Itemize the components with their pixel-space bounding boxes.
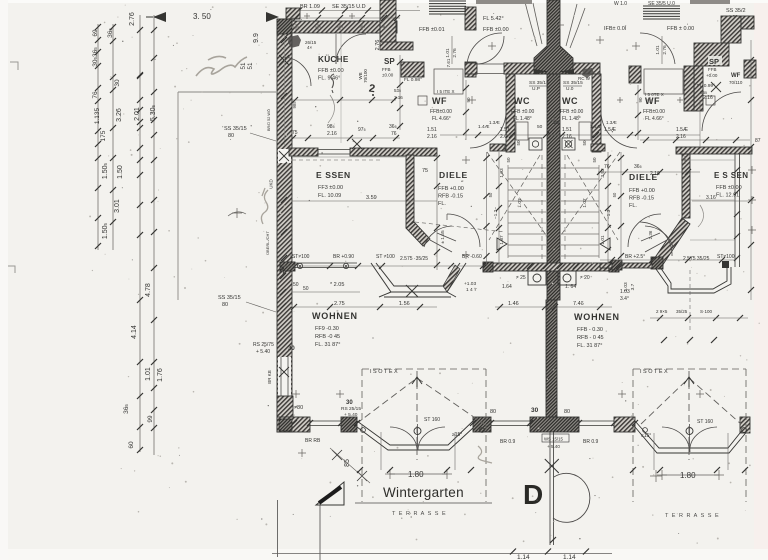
svg-text:76: 76 — [92, 91, 99, 99]
central section line lower — [550, 432, 554, 545]
svg-text:75: 75 — [422, 168, 428, 174]
svg-text:ST≠100: ST≠100 — [717, 254, 735, 260]
stair arrow right — [600, 238, 610, 250]
svg-text:FFB ± 0.00: FFB ± 0.00 — [667, 26, 694, 32]
svg-text:FFB +0.00: FFB +0.00 — [629, 188, 655, 194]
svg-text:BR 0.9: BR 0.9 — [500, 439, 516, 445]
svg-text:FL 5.42°: FL 5.42° — [483, 16, 504, 22]
svg-text:FL. 31 87°: FL. 31 87° — [577, 343, 602, 349]
svg-text:50: 50 — [612, 192, 617, 197]
svg-text:87: 87 — [755, 138, 761, 144]
axis arrow right at wall — [266, 12, 279, 22]
right house small square — [706, 96, 715, 105]
tick cluster bottom piers — [357, 467, 363, 473]
svg-text:7.61: 7.61 — [446, 58, 451, 67]
svg-text:1.3Æ: 1.3Æ — [606, 120, 617, 125]
svg-text:80: 80 — [222, 302, 228, 308]
tick cluster at boundary left wall — [280, 273, 286, 279]
node circles at boundary posts left — [297, 263, 348, 268]
more chain ticks left margin — [137, 73, 143, 79]
top corridor band door gap lines — [477, 63, 504, 65]
svg-text:2.76: 2.76 — [129, 12, 136, 26]
svg-text:E S SEN: E S SEN — [714, 171, 748, 180]
svg-text:1.01: 1.01 — [145, 367, 152, 381]
bottom wall corner leg — [277, 417, 310, 432]
dim line y265 ticks — [292, 263, 298, 269]
svg-text:ÜBERL./CHT: ÜBERL./CHT — [265, 231, 270, 255]
right DIELE wall vertical — [682, 154, 690, 218]
right essen curve mark — [698, 205, 704, 227]
wintergarten dashed roof diamond left — [356, 371, 484, 460]
svg-text:51: 51 — [247, 62, 254, 69]
stair dashed diagonal right — [561, 152, 620, 235]
svg-text:50: 50 — [488, 192, 493, 197]
handwriting in kitchen — [331, 74, 334, 93]
kitchen curve mark — [328, 95, 335, 123]
svg-text:I 5 ITE X: I 5 ITE X — [437, 89, 455, 94]
central party wall upper — [534, 0, 573, 74]
svg-text:1.135: 1.135 — [94, 107, 101, 124]
boundary pier at left wall — [280, 262, 295, 271]
right house pier near WF — [629, 66, 641, 83]
svg-text:ST 160: ST 160 — [424, 417, 440, 423]
svg-text:1.80: 1.80 — [408, 470, 424, 479]
right house outer window band vertical — [735, 154, 740, 267]
kitchen window sill lines — [284, 20, 286, 145]
left bay window — [357, 421, 474, 450]
boundary window left — [295, 263, 357, 268]
svg-text:FFB: FFB — [708, 67, 717, 72]
svg-text:50: 50 — [592, 157, 597, 163]
svg-text:FF3 ±0.00: FF3 ±0.00 — [318, 185, 343, 191]
svg-text:UKD: UKD — [269, 179, 274, 189]
svg-text:I 5 0TE X: I 5 0TE X — [645, 92, 664, 97]
svg-text:SE 35/15 U.D: SE 35/15 U.D — [332, 4, 366, 10]
svg-text:FL. 12.91: FL. 12.91 — [716, 193, 739, 199]
svg-text:1.64: 1.64 — [502, 284, 512, 290]
svg-text:2.01: 2.01 — [134, 107, 141, 121]
svg-text:365: 365 — [123, 404, 130, 414]
vertical dims flanking bays — [380, 432, 382, 470]
svg-text:FFB ±0.00: FFB ±0.00 — [483, 27, 509, 33]
svg-text:1.01: 1.01 — [655, 45, 661, 55]
svg-text:FFB ±0.00: FFB ±0.00 — [318, 68, 344, 74]
dark dust specks — [122, 9, 736, 539]
svg-text:2.16: 2.16 — [327, 131, 337, 137]
svg-text:SS 35/15: SS 35/15 — [529, 80, 549, 86]
svg-text:3.4°: 3.4° — [620, 296, 629, 302]
door arc right house ESSEN — [640, 222, 672, 256]
kitchen right wall — [380, 0, 396, 43]
dim row y140 right house — [640, 139, 750, 141]
svg-text:RFB -0.15: RFB -0.15 — [629, 196, 654, 202]
bottom pier e right — [740, 417, 750, 433]
wintergarten label box — [355, 502, 492, 504]
dashed verticals flanking shaft — [541, 155, 543, 265]
svg-text:50: 50 — [293, 282, 299, 288]
svg-text:FL. 9.46°: FL. 9.46° — [318, 76, 340, 82]
top corridor band right part — [560, 63, 600, 74]
svg-text:1.56: 1.56 — [399, 301, 410, 307]
svg-text:WF: WF — [731, 73, 741, 79]
svg-text:BR 1.09: BR 1.09 — [300, 4, 320, 10]
WC right wall — [592, 74, 601, 152]
right DIELE wall diagonal — [654, 218, 690, 266]
svg-text:1.01: 1.01 — [445, 48, 451, 58]
right house top wall block B — [694, 43, 729, 66]
node circles at bay posts — [361, 428, 747, 433]
X in right fixture box — [565, 140, 573, 148]
svg-text:FL 4.66°: FL 4.66° — [432, 116, 451, 122]
svg-text:KÜCHE: KÜCHE — [318, 54, 349, 64]
svg-text:51: 51 — [240, 62, 247, 69]
horizontal dim y307 center — [495, 306, 612, 308]
small margin mark top-left — [10, 62, 18, 70]
dimension chain line x=98 — [97, 24, 99, 250]
left DIELE wall diagonal — [406, 222, 430, 246]
cross curve mark in ESSEN — [232, 208, 242, 218]
X mark kitchen dim — [352, 139, 362, 149]
left bay fixture circle — [414, 428, 421, 435]
svg-text:1.14: 1.14 — [563, 554, 576, 560]
svg-text:BR RB: BR RB — [305, 438, 321, 444]
pier below hall room — [465, 62, 476, 77]
dark pencil blob kitchen corner — [288, 35, 301, 48]
vertical dim left WF x466 — [465, 80, 467, 140]
right bay fixture circle — [686, 428, 693, 435]
svg-text:1.01: 1.01 — [600, 235, 606, 245]
WC fixtures left — [529, 138, 542, 150]
svg-text:FL.: FL. — [629, 203, 637, 209]
dashed ceiling line DIELE left — [415, 222, 505, 232]
left bay door arcs — [390, 424, 445, 450]
svg-text:1.4Æ: 1.4Æ — [590, 124, 602, 130]
svg-text:50: 50 — [582, 140, 587, 146]
svg-text:FFB: FFB — [382, 67, 391, 72]
dashed vertical through right bay — [689, 270, 691, 332]
svg-text:+1.03: +1.03 — [464, 281, 476, 287]
dim row right mirror — [598, 171, 700, 173]
extra crosses upper rooms — [488, 42, 496, 50]
svg-text:FL. 10.09: FL. 10.09 — [318, 193, 341, 199]
svg-text:2.16: 2.16 — [650, 171, 660, 177]
svg-text:3.26: 3.26 — [116, 108, 123, 122]
svg-text:60: 60 — [128, 441, 135, 449]
svg-text:4.78: 4.78 — [145, 283, 152, 297]
WC left wall — [506, 74, 515, 152]
svg-text:FL 0.98°: FL 0.98° — [404, 77, 422, 83]
striped stair block top right — [643, 6, 680, 19]
svg-text:3Ø: 3Ø — [553, 120, 560, 125]
window gap left wall at y150 — [278, 149, 291, 163]
svg-text:≠ 25: ≠ 25 — [516, 275, 526, 281]
top cut wall fragment right — [690, 0, 730, 4]
left boundary dim line — [283, 265, 483, 267]
svg-text:1.03: 1.03 — [620, 289, 630, 295]
svg-text:RFB -0.15: RFB -0.15 — [438, 194, 463, 200]
vertical dim x621 DIELE right — [620, 152, 622, 266]
pencil squiggle near right bay — [478, 446, 492, 463]
extra ticks below bay right — [661, 337, 667, 343]
fan steps at left diagonal — [424, 226, 456, 252]
X mark below central wall — [545, 459, 559, 473]
window X in left wall upper — [279, 55, 289, 65]
svg-text:2.76: 2.76 — [662, 45, 668, 55]
svg-text:1.505: 1.505 — [102, 162, 109, 179]
dim vertical x499 with rotated labels — [498, 152, 500, 265]
WC room inner fittings right — [579, 122, 591, 140]
chimney flue curves — [525, 2, 585, 48]
section symbol A triangle — [316, 482, 344, 505]
svg-text:1.50: 1.50 — [117, 165, 124, 179]
section line at x320 — [319, 505, 321, 560]
svg-text:99: 99 — [147, 415, 154, 423]
top dim marks above kitchen — [293, 24, 299, 30]
svg-text:90: 90 — [638, 97, 643, 103]
top cut wall fragment near center — [476, 0, 532, 4]
boundary dark pier a — [483, 262, 493, 272]
svg-text:2.16: 2.16 — [427, 134, 437, 140]
svg-text:2.76: 2.76 — [452, 48, 458, 58]
svg-text:1. 64: 1. 64 — [565, 284, 576, 290]
dimension chain line x=140 — [139, 15, 141, 452]
section line at x277 lower — [277, 500, 279, 557]
door arc kitchen corridor — [476, 36, 504, 64]
svg-text:* 2.05: * 2.05 — [330, 282, 344, 288]
stair treads right flight — [561, 165, 599, 258]
bottom window band a — [310, 421, 341, 426]
svg-text:± 1.65: ± 1.65 — [440, 230, 446, 244]
svg-text:30: 30 — [288, 346, 295, 352]
dim vertical x437 — [436, 152, 438, 270]
stair arrow left — [497, 238, 507, 250]
svg-text:1.76: 1.76 — [157, 368, 164, 382]
dim line above WC row — [440, 134, 700, 136]
window sill lines right wall — [690, 159, 735, 161]
svg-text:70/110: 70/110 — [729, 80, 743, 85]
vertical guide at x341 kitchen — [340, 34, 342, 143]
mid wall left segment — [289, 148, 318, 156]
guide dashed line y160 kitchen — [292, 159, 380, 161]
svg-text:175: 175 — [100, 130, 107, 141]
dark corner overlay bottom-left — [279, 419, 292, 431]
door arc WF right lower — [601, 112, 637, 148]
stair treads left flight — [508, 165, 546, 258]
door arc hall right — [640, 33, 675, 64]
dim line ESSEN 3.59 — [292, 200, 437, 202]
right house boundary wall — [600, 263, 652, 268]
x mark right wall — [711, 82, 721, 92]
right ESSEN bay window — [656, 267, 731, 293]
extra crosses mid — [462, 156, 470, 164]
svg-text:T E R R A S S E: T E R R A S S E — [665, 513, 720, 519]
fixture boxes below boundary — [528, 271, 546, 285]
svg-text:1.80: 1.80 — [680, 471, 696, 480]
svg-text:1.3Æ: 1.3Æ — [489, 120, 500, 125]
small cross left of bay — [298, 449, 306, 457]
svg-text:WC: WC — [562, 96, 578, 106]
svg-text:RS 25/75: RS 25/75 — [253, 342, 274, 348]
svg-text:35/25: 35/25 — [676, 309, 688, 314]
svg-text:80: 80 — [228, 133, 234, 139]
crosses top right room — [596, 36, 604, 44]
plus tick right area — [650, 470, 662, 482]
right house mid wall — [676, 147, 752, 154]
small margin mark mid-left — [8, 266, 15, 273]
svg-text:30: 30 — [346, 400, 353, 406]
svg-text:RC W: RC W — [578, 76, 591, 81]
svg-text:30: 30 — [279, 266, 286, 274]
svg-text:FL. 31 87°: FL. 31 87° — [315, 342, 340, 348]
svg-text:50: 50 — [506, 157, 511, 163]
dim verticals in top rooms — [451, 36, 453, 64]
svg-text:1.46: 1.46 — [508, 301, 519, 307]
bottom wall corner pier left — [277, 396, 293, 432]
svg-text:RFB -0 45: RFB -0 45 — [315, 334, 340, 340]
cabinet rect right WF — [644, 69, 683, 94]
svg-text:−1.3−: −1.3− — [606, 207, 612, 219]
stepped recess DIELE to WOHNEN — [371, 263, 466, 297]
left wall door arc outside — [283, 57, 311, 86]
svg-text:FFB±0.00: FFB±0.00 — [643, 109, 665, 115]
svg-text:ST 160: ST 160 — [697, 419, 713, 425]
svg-text:FFB +0.00: FFB +0.00 — [438, 186, 464, 192]
svg-text:BR/D 52 WÖ: BR/D 52 WÖ — [267, 109, 271, 131]
SP pier — [401, 62, 424, 77]
dimension chain line x=113 — [112, 24, 114, 250]
roof apex symbol left — [412, 377, 422, 387]
kitchen closet wall horizontal — [380, 42, 413, 50]
top corridor band left pier — [465, 63, 477, 74]
mid wall window gap — [318, 150, 350, 155]
right boundary node diamond — [722, 261, 729, 268]
right house far wall piece — [741, 16, 754, 29]
door arc WF left lower — [470, 112, 506, 148]
right wall vertical dim line — [750, 40, 752, 300]
svg-text:4.14: 4.14 — [131, 325, 138, 339]
svg-text:2.575 ·35/25: 2.575 ·35/25 — [400, 256, 428, 262]
svg-text:WOHNEN: WOHNEN — [312, 311, 358, 321]
right house boundary dims — [600, 259, 736, 261]
top wall left house — [278, 21, 397, 33]
dim vertical x608 with rotated labels — [607, 152, 609, 265]
top corridor band mid part — [504, 63, 547, 74]
svg-text:W 1.0: W 1.0 — [614, 1, 627, 7]
tiny marks at top wall — [304, 13, 310, 19]
svg-text:+ 5.40: + 5.40 — [344, 412, 358, 418]
WF small squares left — [418, 96, 427, 105]
svg-text:50: 50 — [537, 124, 543, 130]
svg-text:655: 655 — [700, 90, 707, 95]
svg-text:7.46: 7.46 — [573, 301, 584, 307]
svg-text:2.Ö: 2.Ö — [500, 133, 508, 140]
window gap left wall at y357 — [278, 357, 291, 396]
kitchen entry door gap arc — [336, 34, 366, 64]
svg-text:3.16: 3.16 — [706, 195, 716, 201]
guide line y157 across left house — [292, 156, 406, 158]
bottom pier c — [473, 417, 491, 432]
svg-text:9.9: 9.9 — [253, 33, 260, 43]
dim marks top right house — [617, 97, 623, 103]
svg-text:FFB ±0.00: FFB ±0.00 — [560, 109, 584, 115]
svg-text:1.51: 1.51 — [427, 127, 437, 133]
striped stair block top center — [429, 1, 466, 14]
svg-text:Wintergarten: Wintergarten — [383, 485, 464, 500]
svg-text:30: 30 — [114, 79, 121, 87]
right bay window — [635, 421, 749, 453]
svg-text:80: 80 — [564, 409, 570, 415]
roof apex symbol right — [684, 377, 694, 387]
bottom pier d — [614, 417, 635, 432]
vertical dim right of kitchen wall — [399, 55, 401, 130]
dim row y100 kitchen — [292, 99, 396, 101]
wintergarten dashed outline right — [633, 369, 746, 502]
label WS 15/15 +5.40 boxed — [542, 434, 569, 442]
svg-text:3.01: 3.01 — [114, 199, 121, 213]
svg-text:U.P: U.P — [532, 86, 540, 92]
svg-text:1.03: 1.03 — [499, 168, 505, 178]
left outer wall — [277, 19, 292, 430]
svg-text:5ST≠100: 5ST≠100 — [290, 254, 310, 260]
dim 1.80 right bay — [662, 474, 719, 476]
tick cluster left wall upper — [281, 37, 287, 43]
axis arrow left — [153, 12, 166, 22]
dark corner overlay top-left — [277, 19, 292, 34]
svg-text:30: 30 — [531, 407, 539, 414]
svg-text:T E R R A S S E: T E R R A S S E — [392, 511, 447, 517]
dim cross marks right wall — [748, 166, 756, 174]
svg-text:1.505: 1.505 — [102, 222, 109, 239]
right boundary pier — [612, 260, 622, 270]
svg-text:SS 35/15: SS 35/15 — [224, 126, 247, 132]
svg-text:76: 76 — [391, 131, 397, 137]
mid band pier left of WC — [490, 144, 505, 151]
svg-text:+0.00: +0.00 — [706, 73, 718, 78]
mid band pier right of WC — [591, 144, 605, 151]
dark pencil blob right corridor — [582, 68, 594, 78]
svg-text:≠80: ≠80 — [294, 405, 303, 411]
svg-text:SS 35/15: SS 35/15 — [218, 295, 241, 301]
svg-text:365: 365 — [107, 28, 114, 38]
svg-text:≥15°: ≥15° — [452, 432, 462, 438]
svg-text:FL 1.48°: FL 1.48° — [513, 116, 532, 122]
svg-text:ISOTEX: ISOTEX — [370, 369, 399, 375]
bottom dimension line — [272, 553, 612, 555]
svg-text:1.4Æ: 1.4Æ — [478, 124, 490, 130]
door arc DIELE right — [628, 214, 661, 247]
right bay door arcs — [662, 424, 717, 452]
svg-text:1.51: 1.51 — [562, 127, 572, 133]
dim 1.80 left bay — [390, 473, 447, 475]
svg-text:WOHNEN: WOHNEN — [574, 312, 620, 322]
svg-text:3.7: 3.7 — [630, 283, 636, 290]
right diag pier — [651, 257, 663, 269]
svg-text:3.59: 3.59 — [366, 195, 377, 201]
central party wall middle — [547, 74, 560, 300]
bottom window band b — [491, 421, 530, 426]
wintergarten dashed outline left — [362, 369, 486, 502]
dim row kitchen bottom — [292, 137, 400, 139]
svg-text:FFB ±0.00: FFB ±0.00 — [511, 109, 535, 115]
horizontal dim y292 left — [292, 291, 360, 293]
svg-text:75: 75 — [292, 130, 298, 136]
extra dim ticks upper corridor — [475, 132, 481, 138]
right house SP left wall — [694, 66, 703, 111]
pencil vertical handwriting — [261, 188, 268, 224]
svg-text:U.0: U.0 — [566, 86, 574, 92]
svg-text:4×: 4× — [307, 45, 313, 50]
top dim line with ticks above kitchen — [290, 17, 400, 19]
